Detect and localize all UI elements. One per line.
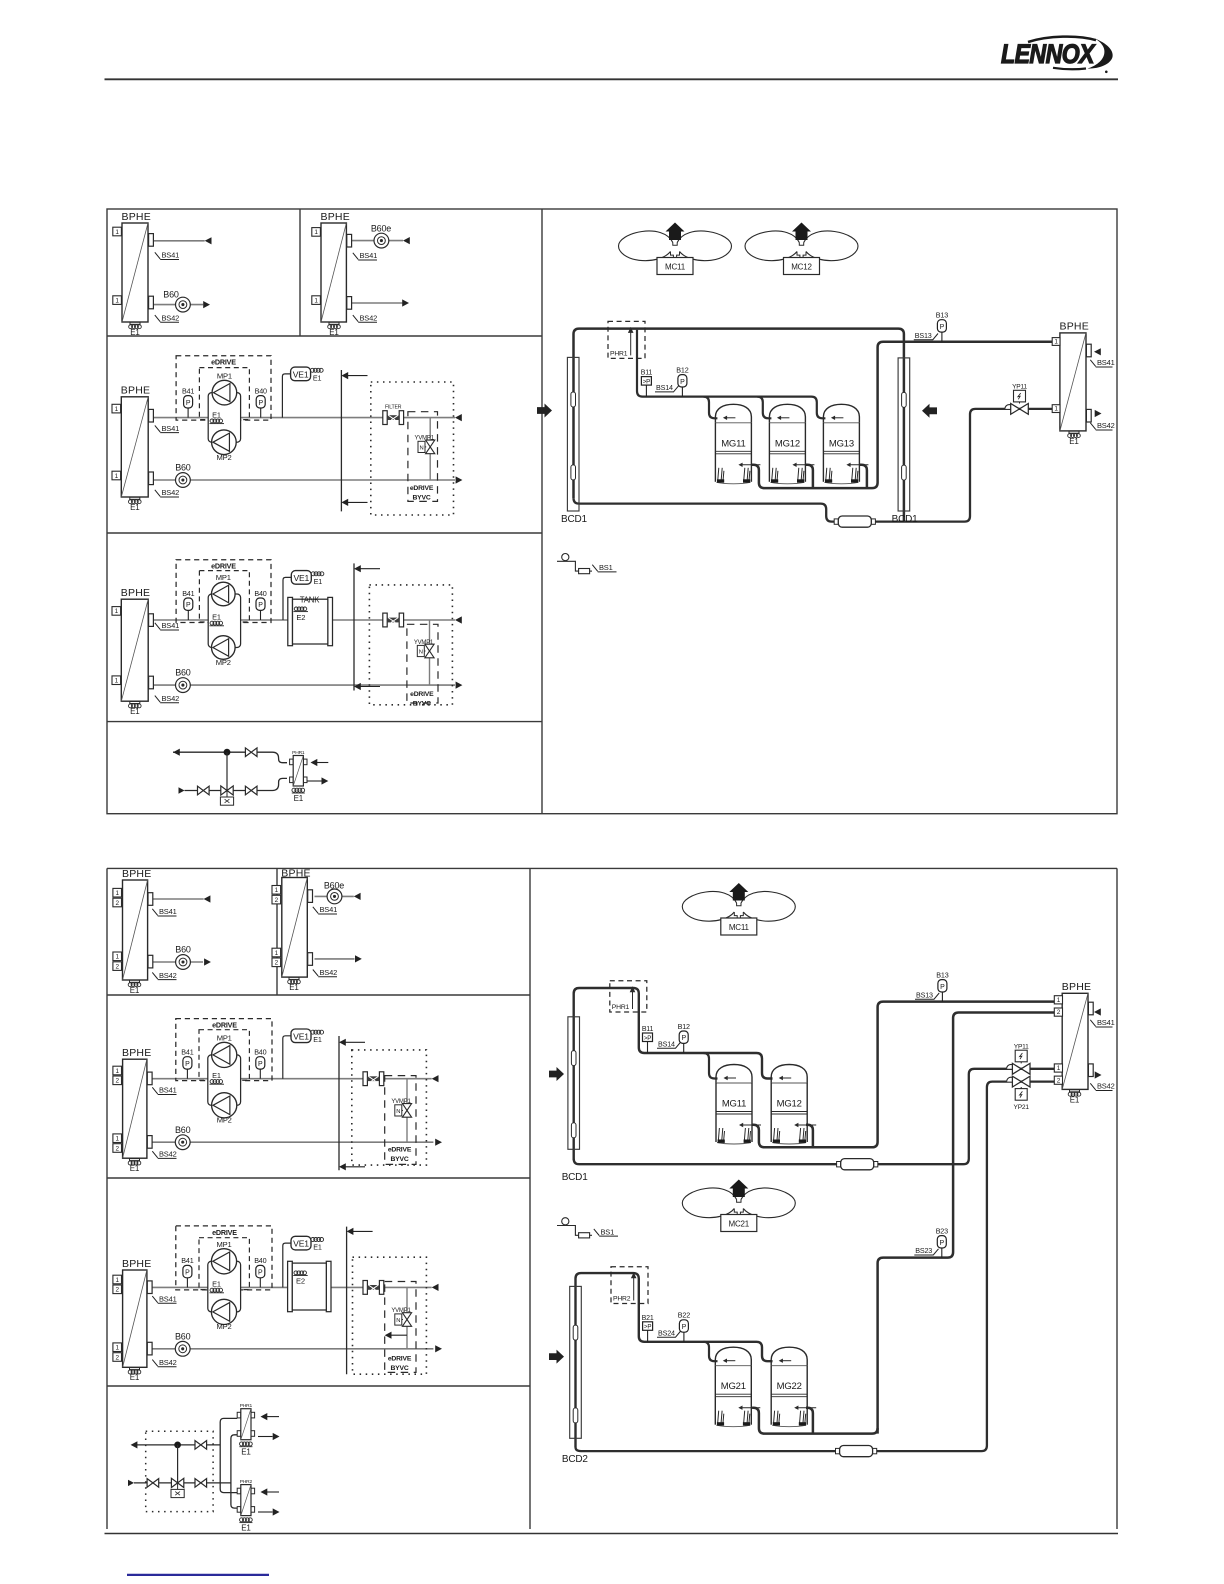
- svg-text:BCD1: BCD1: [892, 514, 919, 525]
- switch B11: [647, 1042, 649, 1054]
- svg-text:B40: B40: [254, 1048, 266, 1057]
- arrow out of PHR1: [258, 1436, 273, 1438]
- expansion vessel VE1: [283, 1243, 291, 1287]
- svg-text:BPHE: BPHE: [122, 211, 151, 223]
- port 1 bottom: [272, 948, 281, 957]
- PHR1 heat exchanger kit: [290, 759, 294, 765]
- svg-text:BPHE: BPHE: [121, 587, 150, 599]
- arrow in (water): [432, 1284, 439, 1291]
- arrow in (water): [455, 414, 462, 421]
- boundary arrow top: [347, 1228, 354, 1235]
- svg-text:E1: E1: [212, 1280, 221, 1289]
- svg-text:B60: B60: [175, 463, 191, 473]
- svg-text:P: P: [258, 1270, 263, 1277]
- stub BS41: [308, 890, 313, 903]
- BPHE heat exchanger r1c1: [122, 223, 148, 322]
- filter drier c1: [837, 1162, 841, 1167]
- svg-text:B41: B41: [182, 386, 194, 395]
- sensor B40: [260, 610, 262, 620]
- pump manifold: [208, 1261, 241, 1312]
- svg-text:E1: E1: [329, 328, 339, 337]
- svg-text:eDRIVE: eDRIVE: [211, 561, 236, 570]
- svg-text:MP2: MP2: [217, 1116, 232, 1125]
- eDRIVE inner dashed box: [199, 571, 249, 622]
- sensor B41: [187, 610, 189, 620]
- panel 1 frame: [107, 209, 1117, 814]
- arrow out (water): [402, 299, 409, 306]
- eDRIVE inner dashed box: [199, 1030, 249, 1081]
- port 1 top: [1052, 338, 1060, 346]
- svg-text:LENNOX: LENNOX: [1001, 39, 1096, 69]
- svg-text:BS42: BS42: [159, 1150, 177, 1159]
- kit 3-way valve: [226, 752, 228, 790]
- wire: bottom water line: [152, 1348, 433, 1350]
- sensor B60e: [374, 233, 389, 248]
- wire: BPHE outlet line: [315, 895, 354, 897]
- svg-text:VE1: VE1: [293, 1031, 309, 1041]
- eDRIVE inner dashed box: [199, 368, 249, 420]
- stub BS41: [147, 1281, 152, 1294]
- stub BS42: [149, 472, 154, 485]
- buffer TANK E2: [288, 1261, 293, 1311]
- filter drier: [834, 519, 838, 524]
- svg-text:MP2: MP2: [216, 658, 231, 667]
- stub BS41: [149, 234, 154, 247]
- eDRIVE outer dashed box: [176, 1019, 272, 1081]
- sensor B41: [186, 1069, 188, 1079]
- svg-text:eDRIVE: eDRIVE: [212, 1228, 237, 1237]
- PHR2 heat exchanger kit: [237, 1488, 241, 1494]
- svg-text:E1: E1: [1070, 1095, 1080, 1104]
- kit valve top: [195, 1441, 201, 1450]
- svg-text:MP1: MP1: [217, 372, 232, 381]
- pump MP2: [212, 1093, 237, 1118]
- svg-text:BS42: BS42: [1097, 1082, 1115, 1091]
- sensor B60: [175, 1135, 190, 1150]
- svg-text:P: P: [682, 1324, 687, 1331]
- arrow out of PHR1: [307, 780, 322, 782]
- label BS41: [1090, 360, 1112, 367]
- svg-text:B22: B22: [678, 1311, 690, 1320]
- BYVC dashed box: [385, 1282, 416, 1373]
- svg-text:MP1: MP1: [217, 1033, 232, 1042]
- wire: top water line row2: [153, 417, 455, 419]
- junction dot: [174, 1442, 181, 1449]
- BPHE heat exchanger r1c2: [321, 223, 346, 322]
- port 1 top: [272, 886, 281, 895]
- svg-text:BS41: BS41: [1097, 358, 1115, 367]
- pipe: coil riser + top + suction drop + header + MG11 branch: [574, 988, 773, 1160]
- port 2 bottom: [113, 962, 122, 971]
- svg-text:BS42: BS42: [162, 314, 180, 323]
- svg-text:E1: E1: [212, 613, 221, 622]
- wire: BPHE outlet line: [153, 898, 204, 900]
- fan MC11: [682, 892, 736, 922]
- stub BS42: [147, 1136, 152, 1149]
- sensor B40: [260, 408, 262, 418]
- stub BS41: [1086, 344, 1091, 357]
- eDRIVE BYVC dotted box: [352, 1050, 427, 1165]
- port 1 top: [113, 888, 122, 897]
- stub BS41: [1088, 1002, 1093, 1015]
- port 1 top: [312, 228, 321, 237]
- BPHE heat exchanger right: [1060, 333, 1086, 431]
- arrow in (water): [432, 1075, 439, 1082]
- svg-text:MG13: MG13: [829, 438, 854, 449]
- label BS14: [655, 386, 679, 392]
- port 1 bottom: [113, 1134, 122, 1143]
- svg-text:B21: B21: [642, 1315, 654, 1322]
- svg-text:BPHE: BPHE: [122, 1258, 151, 1270]
- pipe: circuit2 riser to BPHE port 2: [878, 1013, 1055, 1434]
- svg-text:eDRIVE: eDRIVE: [388, 1356, 412, 1363]
- svg-text:B60: B60: [175, 1331, 191, 1341]
- air flow arrow: [549, 1067, 564, 1081]
- label BS41: [313, 907, 337, 914]
- svg-text:BCD1: BCD1: [561, 514, 588, 525]
- wire: BPHE return line: [153, 961, 203, 963]
- svg-text:BS41: BS41: [159, 907, 177, 916]
- stub BS42: [147, 1342, 152, 1355]
- label BS41: [152, 909, 176, 916]
- BPHE heat exchanger: [282, 878, 308, 978]
- arrow in (water): [354, 893, 361, 900]
- arrow in (water): [205, 237, 212, 244]
- svg-text:eDRIVE: eDRIVE: [410, 485, 434, 492]
- svg-text:E1: E1: [241, 1448, 251, 1457]
- arrow in (water): [204, 895, 211, 902]
- svg-text:B13: B13: [936, 311, 948, 320]
- sensor B40: [259, 1069, 261, 1079]
- svg-text:P: P: [258, 400, 263, 407]
- arrow in kit: [128, 1480, 134, 1486]
- port 2 bottom: [1054, 1076, 1062, 1084]
- svg-text:BPHE: BPHE: [121, 385, 150, 397]
- compressor MG22: [771, 1347, 807, 1366]
- pipe: MG21 suction elbow: [704, 1342, 718, 1361]
- svg-text:B12: B12: [678, 1022, 690, 1031]
- heater E1: [130, 1368, 140, 1370]
- BPHE heat exchanger: [123, 1270, 147, 1367]
- svg-text:E1: E1: [313, 1035, 322, 1044]
- compressor MG11: [715, 404, 751, 423]
- svg-text:MG11: MG11: [721, 438, 745, 449]
- port 1 top: [112, 607, 121, 616]
- svg-text:P: P: [940, 324, 945, 331]
- arrow out (water): [456, 682, 463, 689]
- stub BS41: [149, 614, 154, 627]
- svg-text:B60: B60: [175, 1125, 191, 1135]
- boundary arrow bottom: [341, 499, 348, 506]
- kit valve left: [198, 786, 204, 795]
- PHR1 option dashed box: [610, 981, 647, 1012]
- arrow into PHR2: [261, 1488, 268, 1495]
- compressor MG12: [771, 1065, 807, 1084]
- svg-text:BS42: BS42: [159, 971, 177, 980]
- label BS42: [152, 1151, 176, 1158]
- arrow out (water): [435, 1139, 442, 1146]
- label BS24: [657, 1331, 681, 1337]
- port 2 bottom: [272, 958, 281, 967]
- unit boundary line: [346, 1227, 348, 1375]
- svg-text:eDRIVE: eDRIVE: [410, 691, 434, 698]
- sensor B40: [259, 1277, 261, 1287]
- BYVC dashed box: [385, 1076, 416, 1165]
- pipe: discharge elbows + header: [752, 1408, 878, 1434]
- svg-text:BS42: BS42: [162, 488, 180, 497]
- flow switch BS1: [562, 1218, 569, 1225]
- BPHE heat exchanger row3: [121, 599, 148, 701]
- coil BCD1 left: [567, 357, 579, 511]
- label BS41: [155, 623, 179, 630]
- air flow arrow right: [922, 404, 937, 418]
- svg-text:B40: B40: [255, 386, 267, 395]
- label BS42: [1090, 1083, 1112, 1090]
- svg-text:B60e: B60e: [371, 224, 391, 234]
- valve YP21: [1007, 1077, 1016, 1081]
- svg-text:N: N: [420, 445, 424, 451]
- svg-text:E2: E2: [296, 613, 305, 622]
- stub BS42: [308, 953, 313, 966]
- svg-text:PHR1: PHR1: [292, 750, 305, 756]
- svg-text:E1: E1: [130, 503, 140, 512]
- svg-text:B40: B40: [254, 1256, 266, 1265]
- svg-text:PHR1: PHR1: [612, 1004, 630, 1011]
- svg-text:VE1: VE1: [293, 370, 309, 380]
- air flow arrow: [549, 1350, 564, 1364]
- BPHE heat exchanger: [123, 1059, 147, 1158]
- label BS41: [353, 253, 377, 260]
- kit dotted box: [146, 1431, 213, 1511]
- kit 3-way valve: [177, 1445, 179, 1483]
- pump MP2: [212, 430, 237, 455]
- stub BS42: [149, 296, 154, 309]
- svg-text:YP11: YP11: [1014, 1043, 1029, 1050]
- svg-text:B60: B60: [175, 668, 191, 678]
- pump MP2: [212, 636, 236, 660]
- boundary arrow bottom: [339, 1163, 346, 1170]
- svg-text:B60: B60: [163, 290, 179, 300]
- kit riser to PHR2: [231, 1435, 237, 1508]
- valve YP11: [1007, 1064, 1016, 1068]
- water filter: [383, 411, 387, 425]
- sensor B22: [683, 1332, 685, 1342]
- arrow out (water): [355, 955, 362, 962]
- heater E1 row3: [130, 702, 140, 704]
- PHR1 option dashed box: [608, 321, 645, 358]
- bypass line: [406, 1079, 408, 1143]
- kit top pipe: [173, 752, 287, 763]
- buffer TANK E2: [288, 597, 293, 645]
- svg-text:P: P: [681, 1035, 686, 1042]
- stub BS42: [1086, 409, 1091, 422]
- BPHE heat exchanger row2: [121, 397, 148, 497]
- port 1 bottom: [113, 1343, 122, 1352]
- PHR2 option dashed box: [611, 1267, 648, 1304]
- kit valve right: [195, 1479, 201, 1488]
- svg-text:MC21: MC21: [729, 1220, 750, 1229]
- label BS41: [1090, 1020, 1112, 1027]
- svg-text:eDRIVE: eDRIVE: [211, 357, 236, 366]
- kit valve top: [245, 748, 251, 757]
- pipe: discharge elbows + header + riser: [752, 342, 1052, 488]
- coil BCD2: [570, 1286, 582, 1438]
- Lennox logo: [1001, 37, 1113, 73]
- heater E1: [289, 977, 299, 979]
- svg-text:eDRIVE: eDRIVE: [212, 1020, 237, 1029]
- wire: bottom water line row3: [153, 684, 455, 686]
- top rule: [105, 78, 1119, 80]
- sensor B60: [176, 955, 191, 970]
- svg-text:MC11: MC11: [729, 923, 750, 932]
- svg-text:>P: >P: [643, 378, 650, 385]
- svg-text:E2: E2: [296, 1277, 305, 1286]
- svg-text:MG12: MG12: [775, 438, 800, 449]
- heater E1 r1c2: [329, 322, 339, 324]
- sensor B13: [941, 992, 943, 1002]
- boundary arrow top: [341, 372, 348, 379]
- PHR1 heat exchanger kit: [237, 1412, 241, 1418]
- svg-text:PHR2: PHR2: [613, 1296, 631, 1303]
- BPHE heat exchanger right: [1062, 993, 1088, 1089]
- BPHE heat exchanger: [123, 880, 148, 980]
- coil BCD1: [568, 1017, 580, 1150]
- junction dot: [224, 749, 231, 756]
- svg-text:BS41: BS41: [162, 424, 180, 433]
- pipe: liquid line with filter drier: [574, 409, 1053, 522]
- sensor B41: [187, 408, 189, 418]
- compressor MG13: [823, 404, 859, 423]
- svg-text:BS1: BS1: [599, 563, 613, 572]
- svg-text:E1: E1: [130, 328, 140, 337]
- svg-text:VE1: VE1: [293, 573, 309, 583]
- svg-text:BCD2: BCD2: [562, 1454, 589, 1465]
- svg-text:BS42: BS42: [1097, 421, 1115, 430]
- sensor B60: [176, 473, 191, 488]
- label BS42: [155, 315, 179, 322]
- fan MC21: [682, 1188, 736, 1218]
- svg-text:P: P: [258, 602, 263, 609]
- port 2 bottom: [113, 1144, 122, 1153]
- svg-text:E1: E1: [130, 707, 140, 716]
- svg-text:BS14: BS14: [658, 1039, 675, 1048]
- compressor MG21: [715, 1347, 751, 1366]
- svg-text:BS42: BS42: [360, 314, 378, 323]
- port 1 top: [113, 1066, 122, 1075]
- svg-text:MG22: MG22: [777, 1381, 802, 1392]
- pipe: MG11 suction elbow: [704, 397, 718, 419]
- heater E1 row2: [130, 497, 140, 499]
- svg-text:BS23: BS23: [915, 1246, 932, 1255]
- expansion vessel VE1: [283, 577, 291, 620]
- svg-text:B11: B11: [641, 370, 653, 377]
- label BS13: [914, 334, 938, 340]
- kit riser to PHR1: [220, 1418, 237, 1492]
- unit boundary line: [340, 370, 342, 511]
- svg-text:E1: E1: [212, 1071, 221, 1080]
- arrow out (water): [203, 301, 210, 308]
- arrow out of PHR2: [258, 1511, 273, 1513]
- svg-text:MP1: MP1: [216, 573, 231, 582]
- expansion vessel VE1: [282, 374, 290, 418]
- label BS42: [152, 972, 176, 979]
- svg-text:E1: E1: [212, 410, 221, 419]
- svg-text:PHR1: PHR1: [240, 1403, 253, 1409]
- pipe: MG12 suction elbow: [757, 397, 771, 419]
- port 1 bottom: [312, 296, 321, 305]
- svg-text:eDRIVE: eDRIVE: [388, 1147, 412, 1154]
- svg-text:BS1: BS1: [601, 1227, 615, 1236]
- port 2 top: [113, 898, 122, 907]
- switch B21: [647, 1330, 649, 1342]
- svg-text:YP11: YP11: [1012, 384, 1027, 391]
- svg-text:B41: B41: [182, 589, 194, 598]
- svg-text:FILTER: FILTER: [385, 404, 402, 410]
- svg-text:B40: B40: [254, 589, 266, 598]
- pump manifold: [208, 594, 240, 648]
- svg-text:BS13: BS13: [916, 990, 933, 999]
- pipe: suction drop + header + MG11 branch: [637, 330, 825, 419]
- label BS41: [155, 425, 179, 432]
- label BS42: [155, 696, 179, 703]
- sensor B23: [941, 1248, 943, 1258]
- svg-text:MP2: MP2: [216, 453, 231, 462]
- wire: BPHE return line: [315, 958, 355, 960]
- arrow out (water): [204, 958, 211, 965]
- kit valve right: [245, 786, 251, 795]
- svg-text:P: P: [940, 984, 945, 991]
- svg-text:BYVC: BYVC: [413, 701, 431, 708]
- svg-text:P: P: [258, 1061, 263, 1068]
- svg-text:E1: E1: [1069, 437, 1079, 446]
- svg-text:B12: B12: [676, 365, 688, 374]
- heater E1 r1c1: [130, 322, 140, 324]
- label BS42: [152, 1360, 176, 1367]
- svg-text:BS41: BS41: [320, 905, 338, 914]
- arrow out (water): [435, 1345, 442, 1352]
- eDRIVE outer dashed box: [176, 1226, 272, 1290]
- svg-text:N: N: [419, 650, 423, 656]
- svg-text:BS14: BS14: [656, 383, 673, 392]
- svg-text:B11: B11: [642, 1026, 654, 1033]
- expansion vessel VE1: [283, 1036, 291, 1079]
- svg-text:BS41: BS41: [159, 1295, 177, 1304]
- arrow in (water): [455, 616, 462, 623]
- arrow in kit: [179, 787, 185, 793]
- water filter: [363, 1281, 367, 1295]
- arrow into PHR1: [261, 1413, 268, 1420]
- pipe: MG11 suction elbow: [704, 1053, 718, 1079]
- label BS14: [657, 1042, 681, 1048]
- svg-text:BS41: BS41: [159, 1086, 177, 1095]
- port 1 bottom: [112, 676, 121, 685]
- svg-text:E1: E1: [313, 1243, 322, 1252]
- valve YP11: [1005, 405, 1014, 409]
- port 1 top: [112, 404, 121, 413]
- compressor MG12: [769, 404, 805, 423]
- heater E1: [130, 980, 140, 982]
- water filter: [363, 1072, 367, 1086]
- svg-text:E1: E1: [130, 986, 140, 995]
- wire: bottom water line row2: [153, 479, 455, 481]
- wire: BPHE return line r1c1: [153, 304, 203, 306]
- svg-text:VE1: VE1: [293, 1239, 309, 1249]
- sensor B60: [176, 297, 191, 312]
- compressor MG11: [716, 1065, 752, 1084]
- svg-text:BPHE: BPHE: [122, 1047, 151, 1059]
- svg-text:>P: >P: [644, 1035, 651, 1042]
- sensor B12: [683, 1043, 685, 1053]
